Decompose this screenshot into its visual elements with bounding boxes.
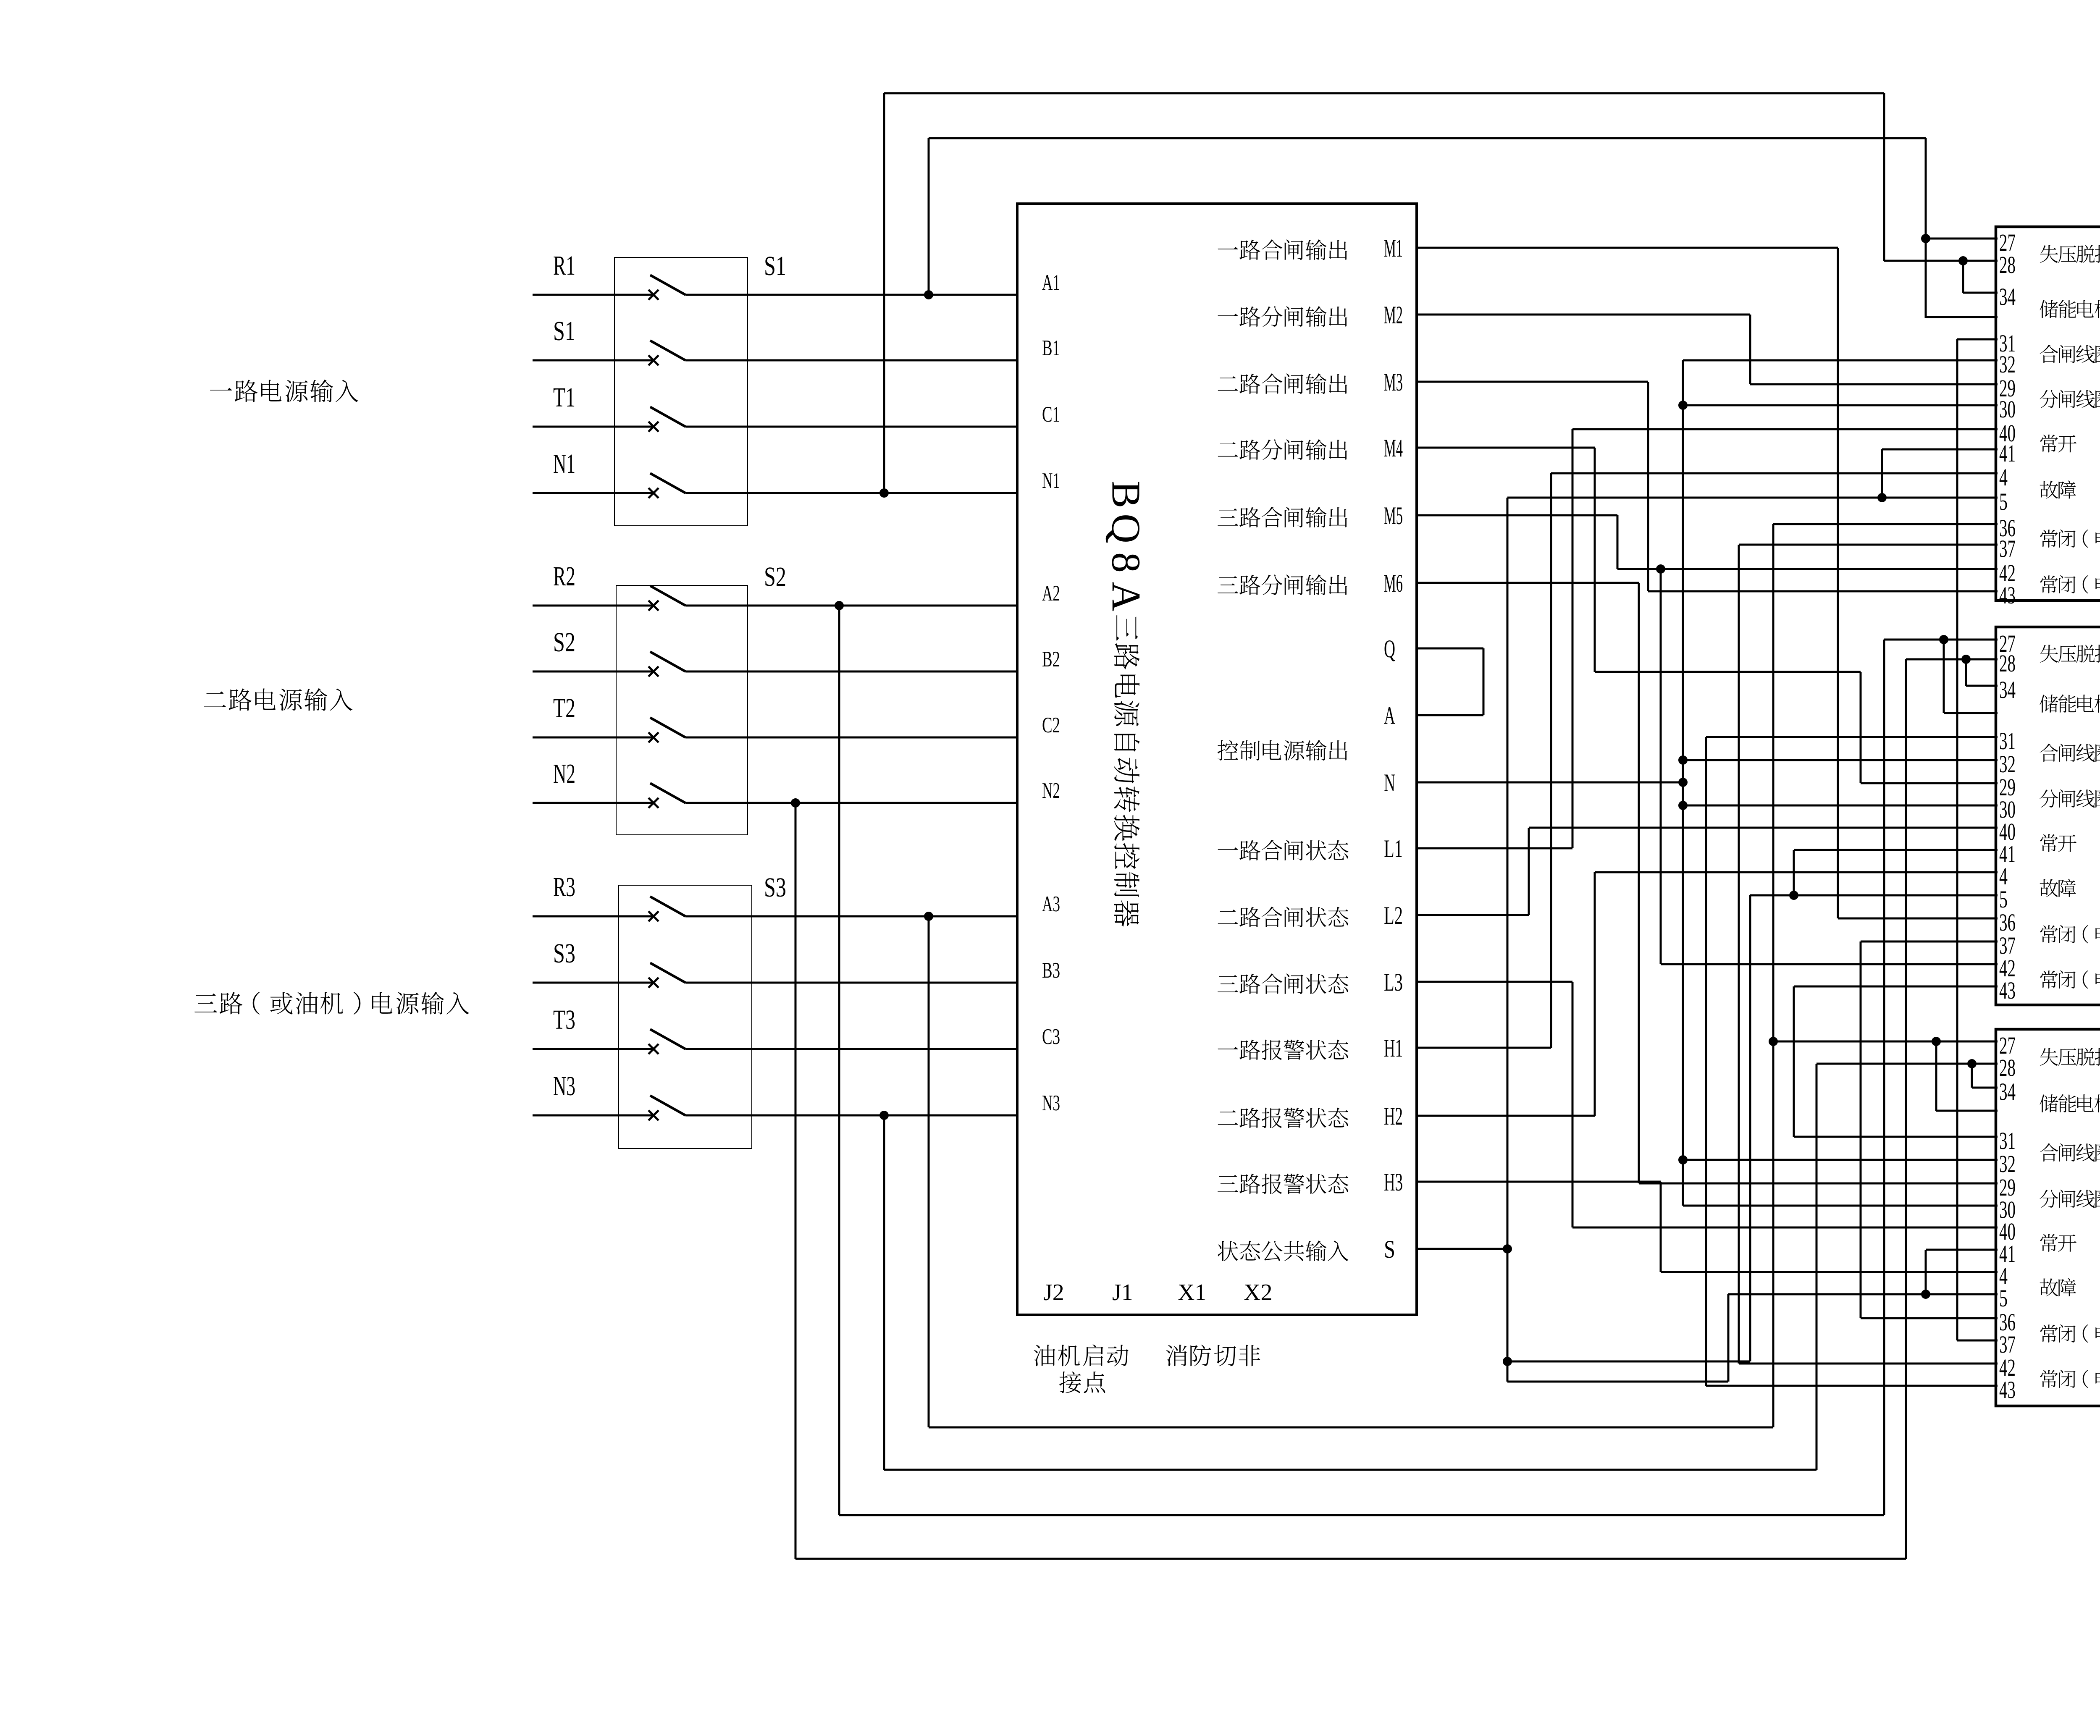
label 常闭（电气互锁） box1 xyxy=(2040,575,2100,594)
label 一路分闸输出 xyxy=(1218,306,1347,327)
label 失压脱扣 box2 xyxy=(2040,645,2100,663)
wire H1 riser xyxy=(1550,473,1552,1048)
label 一路电源输入 xyxy=(210,380,358,402)
wire stub 34 box1 xyxy=(1963,292,1998,294)
wire input T1 xyxy=(533,426,652,428)
label 三路合闸状态 xyxy=(1218,973,1348,994)
wire stub 32 box1 xyxy=(1683,359,1998,362)
wire B3-27 branch xyxy=(1935,1041,1937,1111)
switch pole N1 contact xyxy=(648,488,659,498)
svg-text:R1: R1 xyxy=(553,250,575,281)
svg-text:X2: X2 xyxy=(1244,1280,1272,1306)
wire stub 28 box2 xyxy=(1906,658,1998,661)
switch pole S3 blade xyxy=(650,963,685,983)
node junction (4007,1918) xyxy=(1678,801,1688,810)
wire pin L2 xyxy=(1415,914,1529,916)
wire stub 27 box1 xyxy=(1926,238,1998,240)
wire top line N1 to box1-28 xyxy=(884,92,1884,94)
wire line1 / B2-27 riser xyxy=(1883,93,1885,261)
label 常闭（电气互锁） box2 xyxy=(2040,925,2100,944)
wire stub 36 box1 xyxy=(1773,523,1998,525)
svg-text:M3: M3 xyxy=(1384,368,1403,396)
svg-text:X1: X1 xyxy=(1178,1280,1206,1306)
wire L1/L3 riser xyxy=(1572,429,1574,848)
svg-text:43: 43 xyxy=(1999,977,2016,1004)
wire bottom loop A2 to box2-27 xyxy=(839,1514,1884,1516)
label 故障 box3 xyxy=(2040,1278,2076,1296)
node junction (4610,2480) xyxy=(1932,1037,1941,1046)
label 分闸线圈 box2 xyxy=(2040,789,2100,808)
svg-text:28: 28 xyxy=(1999,251,2016,278)
node junction (4007,965) xyxy=(1678,401,1688,410)
svg-text:S3: S3 xyxy=(764,872,786,903)
switch pole S1 contact xyxy=(648,355,659,365)
wire input S1 xyxy=(533,359,652,362)
node junction (1998,1442) xyxy=(835,601,844,610)
wire stub 41 box2 xyxy=(1794,849,1998,851)
node junction (4222,2480) xyxy=(1769,1037,1778,1046)
wire top line A1 to box1-27 xyxy=(929,137,1926,139)
wire drop N2 xyxy=(795,803,797,1559)
wire pin A xyxy=(1415,714,1483,716)
node junction (2211,702) xyxy=(924,290,933,299)
svg-text:C3: C3 xyxy=(1042,1025,1060,1049)
wire drop A2 xyxy=(838,606,840,1515)
wire M4/H2 riser xyxy=(1594,448,1596,672)
label 接点 xyxy=(1059,1371,1105,1393)
svg-text:4: 4 xyxy=(1999,464,2008,491)
svg-text:A: A xyxy=(1103,582,1149,611)
wire input R1 xyxy=(533,294,652,296)
wire stub 5 box2 xyxy=(1750,894,1998,897)
label 一路合闸状态 xyxy=(1218,840,1349,860)
label 常开 box1 xyxy=(2040,435,2076,453)
wire M2/B2-5 riser xyxy=(1749,315,1751,384)
svg-text:T3: T3 xyxy=(553,1004,575,1035)
wire riser A1 xyxy=(928,138,930,295)
svg-text:B: B xyxy=(1103,481,1149,508)
wire B3-5 riser xyxy=(1727,1294,1730,1382)
switch pole T2 contact xyxy=(648,732,659,742)
wire stub 32 box3 xyxy=(1683,1159,1998,1161)
label 常开 box3 xyxy=(2040,1234,2076,1252)
label 三路（或油机）电源输入 xyxy=(194,992,469,1015)
svg-text:R2: R2 xyxy=(553,561,575,592)
label 储能电机 box1 xyxy=(2040,300,2100,318)
wire stub 43 box2 xyxy=(1794,986,1998,988)
wire input N1 xyxy=(533,492,652,494)
breaker box 三路 xyxy=(1996,1029,2100,1406)
wire bottom loop A3 to box3-27 xyxy=(929,1427,1773,1429)
wire stub 42 box1 xyxy=(1617,568,1998,570)
switch pole R2 blade xyxy=(650,586,685,606)
svg-text:H1: H1 xyxy=(1384,1034,1403,1062)
svg-text:Q: Q xyxy=(1384,635,1395,663)
wire stub 37 box2 xyxy=(1861,941,1998,943)
switch pole T3 contact xyxy=(648,1044,659,1054)
wire stub 41 box1 xyxy=(1882,448,1998,451)
wire input R2 xyxy=(533,605,652,607)
svg-text:34: 34 xyxy=(1999,1078,2016,1105)
wire stub p box1 xyxy=(1926,316,1998,318)
svg-text:S1: S1 xyxy=(553,316,575,346)
svg-text:A2: A2 xyxy=(1042,581,1060,606)
wire stub 36 box2 xyxy=(1838,918,1998,920)
wire stub 4 box1 xyxy=(1551,472,1998,475)
svg-text:N1: N1 xyxy=(553,448,575,479)
wire stub 28 box3 xyxy=(1816,1063,1998,1065)
node junction (3954,1355) xyxy=(1656,564,1665,574)
node junction (4695,2533) xyxy=(1967,1059,1977,1068)
wire S to box2 link xyxy=(1507,1361,1750,1363)
wire M4 jog / B2-37 riser xyxy=(1860,941,1862,1318)
label 油机启动 xyxy=(1034,1345,1128,1366)
wire stub 31 box3 xyxy=(1794,1136,1998,1138)
wire stub 30 box1 xyxy=(1683,404,1998,406)
node junction (4585,3082) xyxy=(1921,1290,1930,1299)
controller U1 BQ8A box xyxy=(1017,204,1417,1315)
wire L1/L3 riser xyxy=(1572,982,1574,1227)
wire stub 27 box2 xyxy=(1884,639,1998,641)
svg-text:N3: N3 xyxy=(553,1071,575,1101)
label 常闭（电气互锁） box1 xyxy=(2040,530,2100,548)
wire stub 42 box2 xyxy=(1661,963,1998,965)
wire input N3 xyxy=(533,1115,652,1117)
wire pin M1 xyxy=(1415,247,1838,249)
wire pin S xyxy=(1415,1248,1507,1250)
switch pole T2 blade xyxy=(650,718,685,737)
switch pole R3 contact xyxy=(648,911,659,921)
svg-text:N1: N1 xyxy=(1042,469,1060,493)
wire stub 29 box2 xyxy=(1861,782,1998,784)
wire B2-31 riser xyxy=(1705,737,1707,1386)
svg-text:S1: S1 xyxy=(764,251,786,281)
wire pin H2 xyxy=(1415,1115,1595,1117)
wire L2 riser xyxy=(1528,828,1530,915)
label 合闸线圈 box1 xyxy=(2040,345,2100,363)
svg-text:N3: N3 xyxy=(1042,1091,1060,1115)
wire pin M6 xyxy=(1415,582,1639,584)
wire stub p box3 xyxy=(1936,1110,1998,1112)
wire drop N3 xyxy=(883,1115,885,1470)
wire B1-43/H3 riser xyxy=(1660,569,1662,964)
wire stub 30 box2 xyxy=(1683,805,1998,807)
svg-text:T1: T1 xyxy=(553,382,575,413)
wire bottom loop N2 to box2-28 xyxy=(795,1558,1906,1560)
svg-text:A: A xyxy=(1384,702,1395,729)
wire pin L1 xyxy=(1415,847,1572,850)
svg-text:B1: B1 xyxy=(1042,336,1060,360)
wire input S2 xyxy=(533,671,652,673)
wire stub 32 box2 xyxy=(1683,759,1998,761)
svg-text:H3: H3 xyxy=(1384,1168,1403,1196)
label 二路报警状态 xyxy=(1218,1108,1349,1128)
label 故障 box2 xyxy=(2040,879,2076,897)
svg-text:J1: J1 xyxy=(1112,1280,1133,1306)
wire stub 42 box3 xyxy=(1739,1363,1998,1365)
svg-text:28: 28 xyxy=(1999,650,2016,677)
wire B1-27 / B3-41 riser xyxy=(1925,138,1927,318)
wire pin Q xyxy=(1415,648,1483,650)
svg-text:L3: L3 xyxy=(1384,968,1403,996)
svg-text:37: 37 xyxy=(1999,535,2016,562)
wire stub 5 box3 xyxy=(1728,1293,1998,1295)
switch pole R1 contact xyxy=(648,290,659,300)
breaker box 二路 xyxy=(1996,627,2100,1005)
node junction (2211,2182) xyxy=(924,912,933,921)
switch pole T3 blade xyxy=(650,1029,685,1049)
svg-text:M1: M1 xyxy=(1384,234,1403,262)
wire B1-34 link xyxy=(1962,261,1964,293)
label 二路电源输入 xyxy=(204,688,352,711)
wire stub 37 box1 xyxy=(1739,544,1998,546)
wire stub 34 box2 xyxy=(1966,685,1998,687)
wire pin M4 xyxy=(1415,447,1595,449)
wire stub 31 box1 xyxy=(1957,338,1998,341)
wire input S3 xyxy=(533,982,652,984)
wire input N2 xyxy=(533,802,652,804)
svg-text:S2: S2 xyxy=(764,561,786,592)
wire stub 40 box2 xyxy=(1529,827,1998,829)
wire B1-37 chain riser xyxy=(1738,545,1740,1364)
node junction (4007,2762) xyxy=(1678,1155,1688,1164)
wire bottom loop N3 to box3-28 xyxy=(884,1469,1816,1471)
label 常开 box2 xyxy=(2040,834,2076,852)
svg-text:M4: M4 xyxy=(1384,434,1403,462)
wire B2-28 riser xyxy=(1905,659,1907,1559)
label 二路分闸输出 xyxy=(1218,439,1347,460)
label 分闸线圈 box1 xyxy=(2040,390,2100,408)
svg-text:M6: M6 xyxy=(1384,569,1403,597)
node junction (3589,3242) xyxy=(1503,1357,1512,1366)
wire pin M3 xyxy=(1415,381,1648,383)
wire pin M2 xyxy=(1415,314,1750,316)
svg-text:H2: H2 xyxy=(1384,1102,1403,1130)
label 储能电机 box2 xyxy=(2040,695,2100,713)
wire stub 27 box3 xyxy=(1773,1041,1998,1043)
label 二路合闸输出 xyxy=(1218,373,1347,394)
svg-text:41: 41 xyxy=(1999,440,2016,467)
switch pole T1 contact xyxy=(648,422,659,432)
wire stub 43 box3 xyxy=(1706,1385,1998,1387)
wire M4/H2 riser xyxy=(1594,872,1596,1116)
svg-text:A3: A3 xyxy=(1042,892,1060,916)
wire stub 41 box3 xyxy=(1926,1249,1998,1251)
switch pole S3 contact xyxy=(648,978,659,988)
svg-text:B3: B3 xyxy=(1042,958,1060,983)
label 失压脱扣 box3 xyxy=(2040,1048,2100,1066)
switch pole N3 blade xyxy=(650,1096,685,1115)
svg-text:S3: S3 xyxy=(553,938,575,969)
node junction (4007,1810) xyxy=(1678,755,1688,765)
wire B3-34 link xyxy=(1971,1064,1973,1088)
label 故障 box1 xyxy=(2040,480,2076,498)
label 三路合闸输出 xyxy=(1218,507,1347,527)
node junction (4007,1863) xyxy=(1678,778,1688,787)
wire B2-27 branch xyxy=(1943,640,1945,713)
wire drop A3 xyxy=(928,916,930,1427)
wire stub 29 box3 xyxy=(1639,1183,1998,1185)
svg-text:43: 43 xyxy=(1999,582,2016,609)
svg-text:C2: C2 xyxy=(1042,713,1060,737)
wire N bus xyxy=(1682,360,1684,1206)
wire pin L3 xyxy=(1415,981,1572,983)
wire B1-43/H3 riser xyxy=(1660,1182,1662,1272)
wire stub 36 box3 xyxy=(1861,1317,1998,1319)
wire stub 31 box2 xyxy=(1706,736,1998,738)
wire pin H3 xyxy=(1415,1181,1661,1183)
node junction (4271,2132) xyxy=(1789,891,1798,900)
wire QA jumper xyxy=(1483,648,1485,715)
svg-text:T2: T2 xyxy=(553,693,575,724)
switch S2 box xyxy=(616,585,748,835)
switch pole R2 contact xyxy=(648,601,659,611)
label 二路合闸状态 xyxy=(1218,907,1349,927)
node junction (4585,568) xyxy=(1921,234,1930,243)
wire M5 jog xyxy=(1617,515,1619,569)
switch pole N1 blade xyxy=(650,473,685,493)
wire B2-34 link xyxy=(1965,659,1967,686)
wire M6 riser xyxy=(1638,583,1640,1183)
svg-text:M5: M5 xyxy=(1384,502,1403,530)
wire stub 28 box1 xyxy=(1884,260,1998,262)
label 常闭（电气互锁） box3 xyxy=(2040,1370,2100,1388)
wire stub p box2 xyxy=(1944,712,1998,714)
wire M1 riser xyxy=(1837,248,1839,918)
wire riser N1 xyxy=(883,93,885,493)
switch pole S2 contact xyxy=(648,666,659,677)
switch pole T1 blade xyxy=(650,407,685,427)
node junction (2105,2656) xyxy=(879,1111,889,1120)
wire input R3 xyxy=(533,915,652,918)
label 一路报警状态 xyxy=(1218,1040,1349,1060)
svg-text:30: 30 xyxy=(1999,396,2016,423)
breaker box 一路 xyxy=(1996,227,2100,601)
wire M4 jog / B2-37 riser xyxy=(1860,672,1862,783)
switch S3 box xyxy=(619,885,752,1149)
label 常闭（电气互锁） box3 xyxy=(2040,1324,2100,1343)
label 一路合闸输出 xyxy=(1218,239,1347,260)
wire stub 5 box1 xyxy=(1507,497,1998,499)
wire stub 29 box1 xyxy=(1750,383,1998,385)
svg-text:N2: N2 xyxy=(1042,779,1060,803)
switch pole R1 blade xyxy=(650,275,685,295)
svg-text:S2: S2 xyxy=(553,627,575,658)
switch pole N3 contact xyxy=(648,1110,659,1120)
wire stub 40 box1 xyxy=(1572,428,1998,430)
wire M4 chain link xyxy=(1595,671,1861,673)
node junction (4674,621) xyxy=(1958,256,1968,265)
svg-text:Q: Q xyxy=(1103,514,1149,543)
wire B1-41 riser xyxy=(1881,449,1883,498)
svg-text:A1: A1 xyxy=(1042,270,1060,295)
switch pole N2 contact xyxy=(648,798,659,808)
node junction (4628,1523) xyxy=(1939,635,1948,644)
controller U1 title BQ8A三路电源自动转换控制器 xyxy=(1103,481,1149,926)
svg-text:5: 5 xyxy=(1999,1285,2008,1312)
wire S to box3 link xyxy=(1507,1381,1728,1383)
wire pin H1 xyxy=(1415,1047,1551,1049)
node junction (1894,1912) xyxy=(791,798,800,808)
label 状态公共输入 xyxy=(1218,1240,1349,1261)
svg-text:N2: N2 xyxy=(553,758,575,789)
label 合闸线圈 box2 xyxy=(2040,744,2100,762)
svg-text:8: 8 xyxy=(1103,552,1149,573)
wire stub 30 box3 xyxy=(1683,1205,1998,1207)
label 控制电源输出 xyxy=(1218,740,1347,760)
svg-text:B2: B2 xyxy=(1042,647,1060,671)
label 合闸线圈 box3 xyxy=(2040,1143,2100,1162)
wire stub 4 box2 xyxy=(1595,871,1998,873)
node junction (2105,1174) xyxy=(879,488,889,498)
wire S bus xyxy=(1507,498,1509,1382)
svg-text:L2: L2 xyxy=(1384,902,1403,929)
wire stub 4 box3 xyxy=(1661,1271,1998,1273)
wire stub 40 box3 xyxy=(1572,1227,1998,1229)
label 储能电机 box3 xyxy=(2040,1094,2100,1112)
wire stub 37 box3 xyxy=(1957,1340,1998,1342)
wire B1-31 chain riser xyxy=(1956,339,1958,1340)
svg-text:S: S xyxy=(1384,1235,1395,1263)
svg-text:34: 34 xyxy=(1999,676,2016,703)
svg-text:C1: C1 xyxy=(1042,402,1060,427)
label 三路分闸输出 xyxy=(1218,574,1347,595)
svg-text:L1: L1 xyxy=(1384,835,1403,863)
wire B3-28 riser xyxy=(1816,1064,1818,1470)
wire B1-36 / B3-27 riser xyxy=(1772,524,1774,1427)
wire M2/B2-5 riser xyxy=(1749,895,1751,1361)
svg-text:32: 32 xyxy=(1999,351,2016,378)
wire input T2 xyxy=(533,737,652,739)
node junction (4481,1185) xyxy=(1877,493,1887,502)
svg-text:M2: M2 xyxy=(1384,301,1403,329)
node junction (4681,1570) xyxy=(1961,655,1971,664)
svg-text:N: N xyxy=(1384,769,1395,797)
label 分闸线圈 box3 xyxy=(2040,1190,2100,1208)
wire pin M5 xyxy=(1415,514,1617,517)
svg-text:43: 43 xyxy=(1999,1376,2016,1403)
svg-text:34: 34 xyxy=(1999,283,2016,310)
wire pin N xyxy=(1415,781,1683,784)
switch pole S1 blade xyxy=(650,341,685,360)
svg-text:5: 5 xyxy=(1999,488,2008,515)
wire stub 34 box3 xyxy=(1972,1087,1998,1089)
wire line1 / B2-27 riser xyxy=(1883,640,1885,1515)
wire input T3 xyxy=(533,1048,652,1050)
wire B2-41 / B3-31 riser xyxy=(1793,986,1795,1137)
svg-text:J2: J2 xyxy=(1043,1280,1064,1306)
label 消防切非 xyxy=(1166,1345,1260,1366)
switch pole R3 blade xyxy=(650,897,685,916)
wire M3 jog xyxy=(1647,382,1649,591)
wire B2-41 / B3-31 riser xyxy=(1793,850,1795,895)
label 失压脱扣 box1 xyxy=(2040,245,2100,263)
switch pole S2 blade xyxy=(650,652,685,671)
wire stub 43 box1 xyxy=(1648,590,1998,593)
svg-text:28: 28 xyxy=(1999,1054,2016,1081)
wire B1-27 / B3-41 riser xyxy=(1925,1250,1927,1294)
svg-text:R3: R3 xyxy=(553,872,575,902)
node junction (3589,2974) xyxy=(1503,1244,1512,1253)
switch S1 box xyxy=(614,257,748,526)
switch pole N2 blade xyxy=(650,783,685,803)
label 三路报警状态 xyxy=(1218,1174,1348,1194)
label 常闭（电气互锁） box2 xyxy=(2040,970,2100,989)
